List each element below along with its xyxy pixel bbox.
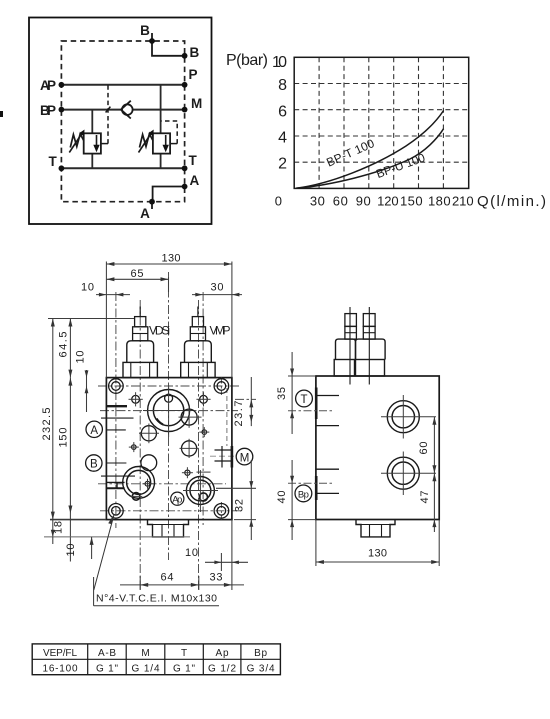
dim 64 bottom [120,576,199,590]
node A right [182,184,188,190]
valve VDSi body [127,341,154,363]
chart axes box [294,57,469,188]
svg-text:BP: BP [40,103,56,118]
wire AP-P line [61,84,184,86]
svg-text:40: 40 [276,491,288,504]
svg-text:Ap: Ap [172,495,182,506]
svg-text:120: 120 [377,194,399,209]
svg-text:130: 130 [368,548,387,560]
node B top [149,38,155,44]
svg-text:33: 33 [210,572,223,584]
dim 130 side bottom [316,520,439,566]
svg-text:G 3/4: G 3/4 [247,663,275,674]
centerline hole row 399 [235,398,256,400]
block outline front [106,378,231,520]
svg-text:64.5: 64.5 [58,332,70,358]
label circle M [236,448,253,465]
port Bp crosshair [183,470,218,512]
small hole top-right cross [196,392,210,406]
valve VMP body [185,341,212,363]
chart grid vertical [319,57,443,188]
node A bottom [149,199,155,205]
dim 10 top-left [96,293,130,297]
relief valve V1 adjust arrow [69,130,84,153]
svg-text:B: B [140,23,150,38]
TABLE [32,644,280,675]
port A bore outer [123,467,155,499]
nut bottom ext line [44,536,190,538]
valve VDSi screw [135,317,146,327]
svg-text:10: 10 [65,544,77,557]
side valve2 hex base [356,360,385,377]
dim 64.5 [68,319,72,378]
svg-text:T: T [189,153,198,168]
relief valve V1 arrow [93,135,99,152]
hidden line right inner [226,388,228,446]
dim 130 top [106,262,231,378]
table frame [32,644,280,675]
svg-text:AP: AP [40,78,56,93]
edge artifact mark [0,111,3,117]
svg-text:16-100: 16-100 [43,663,78,674]
dim 65 [106,277,168,292]
svg-text:T: T [300,394,307,406]
svg-text:P: P [189,67,198,82]
svg-text:B: B [190,45,200,60]
svg-text:8: 8 [278,77,287,94]
port A tiny cross [143,479,153,489]
node B right [182,53,188,59]
node T right [182,165,188,171]
svg-text:150: 150 [58,428,70,448]
port Bp bore inner [190,480,211,501]
hole C2 right of B [179,407,202,428]
port M side window [215,446,233,468]
bolt TR crosshair [220,378,222,396]
port hole side lower inner [392,462,414,484]
dim 10 bottom-left [90,537,94,559]
svg-text:Q(l/min.): Q(l/min.) [477,193,546,210]
small hole top-left cross [129,392,143,406]
port B top notch [165,394,173,402]
centerline VMP-Ap column [198,300,200,592]
port Bp small hole [199,493,207,501]
port B crosshair [143,385,194,437]
svg-text:M: M [191,96,202,111]
curve BP-T 100 [296,111,444,189]
left edge step lower [101,463,135,476]
svg-text:G 1/4: G 1/4 [132,663,160,674]
block outline side [316,376,439,520]
svg-text:10: 10 [81,282,94,294]
dim 150 [68,378,72,562]
svg-text:G 1": G 1" [96,663,118,674]
left edge step upper [101,406,134,430]
tiny hole above Bp [182,467,193,478]
valve VDSi stem [139,307,141,317]
svg-text:G 1/2: G 1/2 [208,663,236,674]
FRONTVIEW [41,253,256,606]
svg-text:65: 65 [131,268,144,280]
node BP [59,107,65,113]
dim 47 right [432,473,436,532]
centerline M row [210,455,236,457]
block bottom ext line [50,519,106,521]
svg-text:VEP/FL: VEP/FL [43,648,77,659]
svg-text:180: 180 [428,194,451,209]
svg-text:18: 18 [53,521,65,534]
bottom nut front [148,520,189,537]
tick above Bp port [197,471,211,473]
wire BP-M line left [61,109,121,111]
svg-text:30: 30 [211,282,224,294]
port hole side lower crosshair [381,452,436,496]
port T window [316,388,339,426]
port B bore inner [153,395,183,425]
port Bp window [316,469,339,500]
svg-text:60: 60 [333,194,348,209]
svg-text:A: A [140,206,150,221]
label circle Bp [295,485,312,502]
side valve1 body [336,339,356,359]
side valve1 hex base [334,360,354,377]
side valve2 locknut [363,326,375,339]
node T left [59,165,65,171]
svg-text:23.7: 23.7 [233,401,245,427]
dim 232.5 [51,319,55,537]
port A bottom small hole [130,493,142,501]
dim 35 left [288,352,316,434]
bolt hole bottom-right [214,504,229,519]
port T centerline [288,410,332,412]
centerline bolt column left [115,292,117,528]
valve envelope (dashed boundary) [61,41,184,202]
centerline top bolt row [98,385,240,387]
wire T line [61,167,184,169]
svg-text:47: 47 [419,491,431,504]
port hole side lower outer [387,457,419,489]
svg-text:6: 6 [278,103,287,120]
hole C1 left of B [139,424,159,444]
table column lines [88,644,241,675]
svg-text:M: M [141,648,149,659]
svg-text:150: 150 [400,194,423,209]
centerline VDSi column [139,300,141,592]
bolt hole top-left [109,379,124,394]
port hole side upper inner [392,406,414,428]
bottom nut side [356,520,395,537]
label circle B [86,455,102,471]
curve BP-U 100 [296,129,444,189]
valve VMP stem [197,307,199,317]
dim 32 right [249,460,253,540]
relief valve V2 spring [140,134,153,148]
port A top circle [141,455,157,471]
wire A bottom stub [152,187,185,210]
side centerline valve1 [349,307,351,385]
svg-text:90: 90 [356,194,371,209]
centerline bottom bolt row [100,510,242,512]
relief valve V1 body [84,133,101,153]
svg-text:0: 0 [275,194,282,209]
bolt hole top-right [214,379,229,394]
dim 33 bottom [199,583,244,587]
SCHEMATIC [0,18,212,225]
port Bp centerline [288,482,332,484]
side valve1 screw [345,314,357,327]
label circle T [296,390,313,407]
svg-text:A: A [190,173,200,188]
relief valve V2 pilot line [161,121,178,144]
centerline B-port row [100,410,238,412]
side centerline valve2 [368,307,370,385]
centerline B-port column [168,272,170,560]
svg-text:T: T [49,154,58,169]
svg-text:210: 210 [452,194,474,209]
valve VDSi hex base [123,362,157,377]
bolt BR crosshair [220,502,222,520]
svg-text:VMP: VMP [210,324,231,338]
svg-text:M: M [240,452,250,464]
port B bore outer [148,390,190,432]
svg-text:G 1": G 1" [173,663,195,674]
svg-text:Bp: Bp [254,648,267,659]
dim 60 right [432,417,436,474]
valve VMP screw [192,317,203,327]
svg-text:10: 10 [272,54,287,71]
wire left valve outlet [91,154,93,169]
centerline A-port row [98,483,226,485]
svg-text:4: 4 [278,130,287,147]
svg-text:60: 60 [418,442,430,455]
svg-text:N°4-V.T.C.E.I. M10x130: N°4-V.T.C.E.I. M10x130 [96,593,217,605]
table mid line [32,658,280,660]
svg-text:A-B: A-B [98,648,116,659]
svg-text:10: 10 [75,351,87,364]
check valve CV1 [121,101,133,119]
wire B top stub [152,33,185,56]
relief valve V2 body [153,133,170,153]
valve VDSi locknut line [133,333,148,335]
wire left valve inlet [91,110,93,134]
port A bore inner [127,470,151,494]
wire right valve outlet [160,154,162,169]
valve VMP locknut line [190,333,205,335]
node P [182,82,188,88]
svg-text:VDSi: VDSi [149,324,170,338]
svg-text:130: 130 [162,253,181,265]
dim 30 top-right [192,293,242,297]
svg-text:2: 2 [278,156,287,173]
tiny hole mid-right [199,427,209,437]
hole C3 center [180,439,199,458]
port hole side upper outer [387,401,419,433]
svg-text:A: A [90,425,98,437]
svg-text:35: 35 [276,387,288,400]
valve VMP hex base [181,362,215,377]
relief valve V2 adjust arrow [139,130,154,153]
port hole side upper crosshair [381,395,436,439]
top reference line [48,318,134,320]
chart grid horizontal [294,84,469,163]
label circle A [86,421,102,437]
svg-text:Ap: Ap [216,648,229,659]
relief valve V1 pilot line [101,85,108,144]
svg-text:B: B [90,459,98,471]
relief valve V2 arrow [163,135,169,152]
ext line block bottom right [234,519,256,521]
port Bp bore outer [186,477,214,505]
dim 10 left upper [85,370,89,412]
svg-text:64: 64 [161,572,174,584]
dim 23.7 right [249,377,253,426]
pilot crossing jog [106,107,111,113]
label circle Ap [171,492,184,505]
SIDEVIEW [276,307,439,566]
wire BP-M line right [133,109,185,111]
dim 18 [51,530,55,544]
bolt hole bottom-left [109,504,124,519]
tiny hole mid-left [129,442,139,452]
valve VMP locknut [190,327,205,341]
note box [94,577,219,606]
node AP [59,82,65,88]
leader to bolt [94,514,114,590]
svg-text:232.5: 232.5 [41,408,53,441]
node M [182,107,188,113]
svg-text:30: 30 [310,194,325,209]
CHART [226,52,546,210]
ext line Ap row right [216,487,256,489]
svg-text:Bp: Bp [298,489,309,500]
svg-text:32: 32 [234,499,246,512]
side valve2 screw [363,314,375,327]
svg-text:P(bar): P(bar) [226,52,268,69]
centerline 30dim column [202,292,204,525]
port A left slot [106,482,124,488]
svg-text:10: 10 [185,547,198,559]
dim 40 left [288,460,316,540]
dim 10 bottom Ap [205,520,248,590]
side valve2 body [356,339,386,359]
relief valve V1 spring [70,134,83,148]
side valve1 locknut [345,326,357,339]
schematic outer frame [29,18,212,225]
svg-text:T: T [181,648,187,659]
valve VDSi locknut [133,327,148,341]
port B chamfer arc [157,419,164,425]
wire right valve inlet from P [160,85,162,134]
